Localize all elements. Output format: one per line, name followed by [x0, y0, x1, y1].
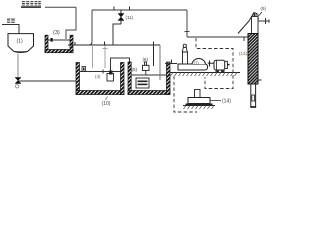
tank 5/6 left wall [128, 62, 131, 95]
svg-text:(1): (1) [17, 39, 23, 45]
vessel 7 dome [192, 59, 206, 64]
wire tank to vessel 7 [165, 63, 177, 65]
label (14) leader [210, 100, 221, 102]
feed label underline [21, 6, 41, 8]
column flue diagonal [238, 13, 258, 34]
wire feed drop into tank 3 [66, 7, 76, 39]
hopper tank 1 [8, 34, 34, 53]
riser x187 [186, 10, 188, 37]
tank 4 right wall [121, 63, 125, 95]
tank 5/6 bottom [128, 91, 170, 95]
tick on dip tube [103, 48, 108, 50]
steam label [7, 19, 15, 23]
valve V2 [120, 10, 122, 14]
wire drop x160 into tank [159, 45, 161, 80]
tank 3 level mark [51, 38, 53, 42]
valve V1 [15, 78, 21, 84]
column top fittings [252, 18, 259, 20]
ground under blower [183, 105, 215, 107]
tick on riser [185, 31, 190, 33]
tick x114 [113, 7, 115, 11]
tank 3 bottom [45, 50, 73, 53]
dash-dot boundary A [196, 38, 233, 89]
heater 5 [136, 78, 149, 88]
distributor 6 [143, 65, 150, 70]
dip tube gray x105 [104, 46, 106, 69]
wire steam inlet [2, 25, 19, 34]
tail cap [250, 106, 256, 108]
label (10) leader [106, 97, 108, 101]
tank 4 left wall [76, 63, 80, 95]
tank 4 bottom [76, 91, 124, 95]
column tail [251, 84, 256, 107]
hopper outlet stub [14, 51, 28, 53]
svg-text:(11): (11) [126, 15, 134, 20]
wire riser x92 from top line [91, 10, 93, 42]
pump 13 shaft [227, 64, 229, 66]
column top stub [252, 17, 259, 34]
label (2) circle [16, 85, 19, 88]
svg-text:(5): (5) [132, 67, 138, 72]
svg-text:(3): (3) [53, 30, 60, 36]
tank 3 right wall [70, 35, 73, 53]
svg-text:(9): (9) [261, 6, 267, 11]
pump 13 body [214, 60, 225, 70]
svg-text:(13): (13) [239, 51, 248, 56]
vessel 7 body [178, 64, 208, 70]
tee stub [209, 61, 211, 67]
level tick [102, 70, 104, 74]
tick x75 [74, 42, 76, 46]
tick x129 [129, 7, 131, 11]
column side tick [258, 79, 262, 81]
svg-text:(10): (10) [102, 101, 111, 107]
tick x171.5 [171, 60, 173, 64]
label (9) leader [259, 12, 263, 16]
tank 3 left wall [45, 35, 48, 53]
svg-text:(7): (7) [194, 61, 199, 65]
wire slurry line to tank 4 [19, 80, 81, 82]
pump 13 flange [225, 61, 228, 68]
tank 4 liquid level [80, 71, 121, 73]
svg-text:(4): (4) [95, 74, 101, 79]
dash-dot boundary B [174, 76, 197, 112]
top wire y10 [92, 9, 187, 11]
tank 5/6 right wall [167, 62, 171, 95]
pump 13 feet [216, 70, 220, 72]
wire y37 to column [187, 36, 248, 38]
wire pump 10 discharge [111, 58, 130, 71]
wire valve V2 to main line [113, 24, 121, 45]
tail float [252, 95, 255, 101]
pump 10 submerged [107, 74, 114, 82]
tick x244 [243, 37, 245, 41]
tank 3 liquid level [47, 39, 70, 41]
svg-text:(14): (14) [222, 99, 231, 105]
pipe jump at x92 [89, 42, 93, 46]
ground under vessel 7 [170, 72, 240, 74]
tank liquid level [131, 74, 166, 76]
vessel stack [183, 52, 188, 64]
tick x153 on main line [153, 42, 155, 67]
feed label text (regenerated liquor) [22, 1, 41, 6]
wire feed line y7 [45, 6, 76, 8]
water inlet tee [258, 20, 269, 22]
blower 14 [195, 90, 201, 98]
submerged device tank 4 [82, 67, 86, 72]
svg-text:(6): (6) [143, 57, 149, 62]
dip tube gray x92 [92, 46, 94, 68]
column 8 body [248, 34, 258, 85]
tick x104 [104, 42, 106, 46]
main wire y45 [68, 44, 160, 46]
wire hopper outlet [17, 54, 19, 78]
